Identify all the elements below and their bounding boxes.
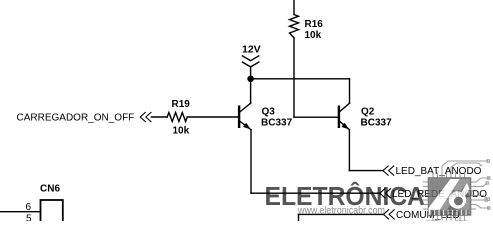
svg-text:CARREGADOR_ON_OFF: CARREGADOR_ON_OFF xyxy=(17,112,135,123)
transistor Q3 emitter xyxy=(240,121,251,129)
svg-text:6: 6 xyxy=(26,202,32,213)
svg-text:10k: 10k xyxy=(173,126,190,137)
off-page connector COMUM_LED xyxy=(384,209,395,219)
resistor R19 xyxy=(167,113,187,122)
off-page connector CARREGADOR_ON_OFF xyxy=(140,112,151,122)
junction dot 12V rail xyxy=(247,76,254,83)
connector CN6 xyxy=(41,200,63,223)
off-page connector LED_REDE_ANODO xyxy=(380,188,391,198)
watermark chip logo xyxy=(423,160,490,221)
transistor Q3 base bar xyxy=(238,106,240,129)
wire to COMUM_LED xyxy=(298,214,300,221)
resistor R16 xyxy=(290,15,299,39)
wire CARREGADOR_ON_OFF to R19 xyxy=(151,116,167,118)
wire CN6 pin 6 xyxy=(0,211,41,213)
svg-text:Q3: Q3 xyxy=(262,106,276,117)
wire R19 to Q3 base xyxy=(187,116,238,118)
wire Q3 emitter down xyxy=(250,130,252,194)
svg-text:R16: R16 xyxy=(305,19,324,30)
wire R16 to Q2 base xyxy=(294,116,338,118)
transistor Q2 base bar xyxy=(338,106,340,129)
transistor Q2 emitter xyxy=(340,121,350,129)
wire to LED_REDE_ANODO xyxy=(251,192,380,194)
transistor Q3 emitter arrow xyxy=(243,123,251,130)
power 12V symbol xyxy=(242,56,258,61)
svg-text:R19: R19 xyxy=(172,99,191,110)
svg-text:10k: 10k xyxy=(305,30,322,41)
svg-text:Q2: Q2 xyxy=(361,106,375,117)
svg-text:LED_BAT_ANODO: LED_BAT_ANODO xyxy=(396,166,482,177)
wire to LED_BAT_ANODO xyxy=(349,170,383,172)
wire R16 bottom lead xyxy=(293,38,295,117)
wire 12V rail xyxy=(251,78,350,80)
svg-text:5: 5 xyxy=(26,213,32,221)
wire Q3 collector xyxy=(250,79,252,103)
transistor Q2 emitter arrow xyxy=(341,123,349,130)
svg-text:12V: 12V xyxy=(242,44,261,56)
wire Q2 collector xyxy=(349,79,351,103)
wire R16 top lead xyxy=(293,0,295,15)
off-page connector LED_BAT_ANODO xyxy=(383,166,394,176)
svg-text:BC337: BC337 xyxy=(261,118,293,129)
svg-text:BC337: BC337 xyxy=(361,118,393,129)
wire Q2 emitter down xyxy=(348,130,350,171)
svg-text:CN6: CN6 xyxy=(40,184,60,195)
